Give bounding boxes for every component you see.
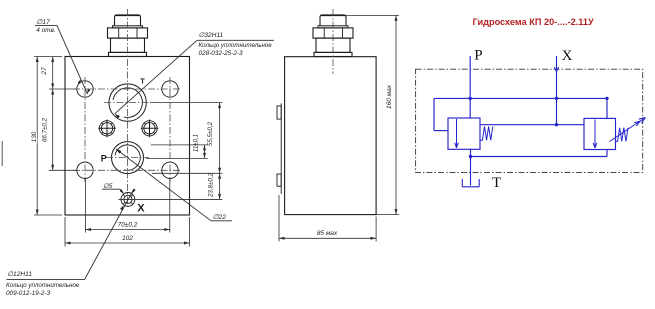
svg-text:028-032-25-2-3: 028-032-25-2-3 <box>199 50 244 57</box>
svg-text:∅17: ∅17 <box>36 19 50 26</box>
svg-text:11±0,1: 11±0,1 <box>194 134 200 152</box>
svg-text:009-012-19-2-3: 009-012-19-2-3 <box>6 290 51 297</box>
svg-text:X: X <box>562 48 573 64</box>
svg-text:Гидросхема КП 20-....-2.11У: Гидросхема КП 20-....-2.11У <box>473 17 594 27</box>
svg-text:70±0,2: 70±0,2 <box>118 222 138 229</box>
svg-text:160 мах: 160 мах <box>386 84 393 109</box>
svg-text:T: T <box>492 175 501 191</box>
svg-text:∅32Н11: ∅32Н11 <box>199 32 224 39</box>
svg-text:85 мах: 85 мах <box>317 230 338 237</box>
svg-text:130: 130 <box>31 131 38 142</box>
svg-text:102: 102 <box>122 235 133 242</box>
svg-text:Кольцо уплотнительное: Кольцо уплотнительное <box>199 42 273 49</box>
svg-text:27: 27 <box>41 67 48 76</box>
svg-text:X: X <box>137 203 145 215</box>
svg-text:T: T <box>140 76 145 85</box>
svg-text:∅12Н11: ∅12Н11 <box>7 271 32 278</box>
svg-text:55,5±0,2: 55,5±0,2 <box>207 121 214 146</box>
svg-text:P: P <box>474 48 482 64</box>
svg-text:∅22: ∅22 <box>213 214 227 221</box>
svg-text:P: P <box>101 153 107 163</box>
svg-text:4 отв.: 4 отв. <box>36 27 55 34</box>
svg-text:Кольцо уплотнительное: Кольцо уплотнительное <box>6 282 80 289</box>
svg-text:66,7±0,2: 66,7±0,2 <box>41 117 48 142</box>
svg-text:23,8±0,2: 23,8±0,2 <box>208 172 215 198</box>
